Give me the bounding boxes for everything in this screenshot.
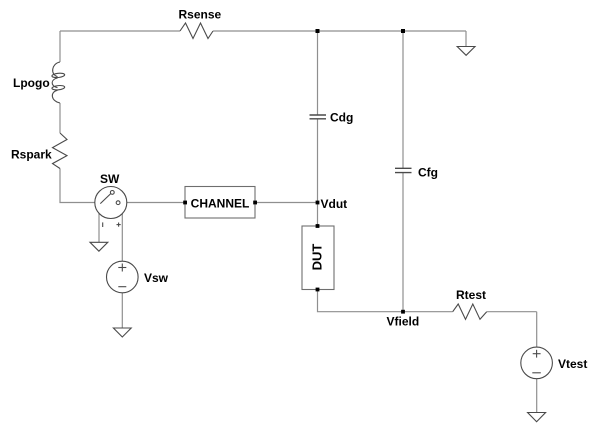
svg-text:Vdut: Vdut [321, 197, 348, 211]
svg-text:Vtest: Vtest [558, 357, 587, 371]
svg-text:Vfield: Vfield [387, 315, 420, 329]
svg-text:DUT: DUT [310, 244, 325, 271]
svg-text:CHANNEL: CHANNEL [191, 197, 250, 211]
svg-text:Rtest: Rtest [456, 288, 486, 302]
svg-text:SW: SW [100, 172, 120, 186]
svg-text:Cdg: Cdg [330, 111, 353, 125]
svg-text:Rspark: Rspark [11, 148, 52, 162]
svg-text:Lpogo: Lpogo [13, 76, 50, 90]
svg-text:Rsense: Rsense [179, 8, 222, 22]
svg-text:Cfg: Cfg [418, 165, 438, 179]
svg-text:Vsw: Vsw [144, 271, 169, 285]
